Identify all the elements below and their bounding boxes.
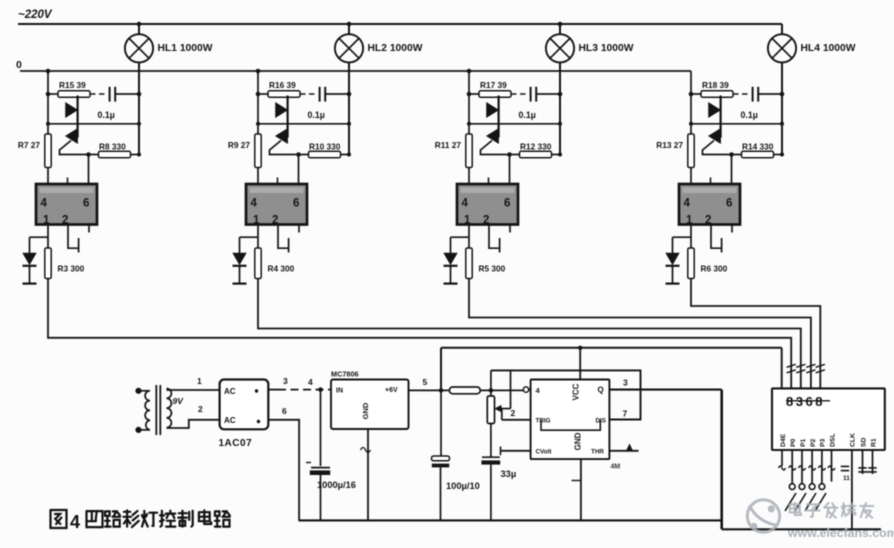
svg-text:1000µ/16: 1000µ/16 [317, 480, 356, 490]
svg-text:HL2 1000W: HL2 1000W [368, 43, 423, 54]
U6 bottom pin P2 with test point [809, 450, 816, 490]
svg-text:R11 27: R11 27 [435, 140, 462, 150]
resistor R5 [466, 248, 506, 279]
svg-text:R1: R1 [870, 438, 877, 447]
wire +6V riser [440, 348, 442, 391]
svg-text:1: 1 [197, 376, 202, 386]
capacitor C2 100u/10 [432, 390, 450, 520]
svg-text:6: 6 [293, 198, 299, 210]
svg-text:P3: P3 [820, 438, 827, 447]
svg-text:R14 330: R14 330 [742, 142, 774, 152]
wire to optocoupler pin6 [88, 155, 90, 185]
capacitor snubber 0.1u [256, 87, 352, 102]
wire 555 THR pin 6 [609, 444, 638, 451]
IC U6 8368 lamp controller [772, 388, 885, 450]
transformer T core [156, 385, 160, 435]
wire bridge + output, pins 3 4 [268, 376, 331, 390]
wire bridge - output, pin 6 [268, 406, 299, 520]
svg-text:VCC: VCC [572, 383, 581, 400]
U6 pins SD R1 [858, 450, 876, 474]
svg-text:4: 4 [462, 198, 469, 210]
svg-text:0.1µ: 0.1µ [519, 110, 536, 120]
wire timing loop to DIS pin 7 [491, 370, 641, 419]
resistor R17 snubber [469, 80, 511, 97]
wire secondary top, pin 1 [167, 376, 220, 390]
caption figure 4 [51, 510, 230, 532]
resistor R9 [228, 134, 261, 168]
wire triac MT line [46, 122, 141, 126]
triac VS3 [481, 96, 520, 155]
svg-text:SD: SD [860, 437, 867, 447]
capacitor C3 33u [481, 457, 500, 519]
svg-text:+6V: +6V [385, 387, 398, 394]
U6 bottom pin P3 with test point [818, 450, 825, 490]
wire optocoupler pin stub right [88, 225, 90, 233]
resistor R18 snubber [691, 80, 733, 97]
svg-text:R7 27: R7 27 [18, 140, 41, 150]
svg-text:1: 1 [43, 215, 50, 227]
wire secondary bottom, pin 2 [167, 404, 220, 428]
wire optocoupler pin stub right [509, 225, 511, 233]
svg-text:2: 2 [511, 408, 516, 418]
svg-text:R18 39: R18 39 [702, 80, 729, 90]
svg-text:Q: Q [598, 386, 604, 395]
resistor R16 snubber [258, 80, 300, 97]
svg-text:11: 11 [843, 475, 850, 482]
svg-text:P1: P1 [800, 438, 807, 447]
wire VDD into U6 [781, 348, 783, 389]
regulator MC7806 [331, 380, 409, 430]
resistor R15 snubber [48, 80, 90, 97]
wire RP wiper to TRIG pin 2 [502, 408, 531, 420]
LED VD2 [233, 237, 259, 283]
resistor R6 [688, 248, 728, 279]
power rail ~220V [18, 9, 782, 24]
resistor R14 gate [729, 142, 784, 158]
wire optocoupler pin1 down [257, 225, 259, 248]
svg-text:3: 3 [623, 377, 628, 387]
svg-text:IN: IN [336, 388, 343, 395]
svg-text:0: 0 [16, 59, 22, 71]
potentiometer RP [487, 370, 510, 456]
svg-text:R13 27: R13 27 [656, 140, 683, 150]
svg-text:www.elecfans.com: www.elecfans.com [787, 526, 894, 540]
wire channel left vertical [467, 69, 472, 134]
svg-text:R12 330: R12 330 [520, 142, 552, 152]
svg-text:6: 6 [83, 198, 89, 210]
wire channel left vertical [690, 71, 692, 134]
LED VD3 [444, 237, 470, 283]
svg-text:DSL: DSL [829, 433, 836, 447]
wire to optocoupler pin6 [298, 155, 300, 185]
wire optocoupler pin stub right [298, 225, 300, 233]
wire optocoupler pin stub right [731, 225, 733, 233]
optocoupler U4 [679, 178, 740, 227]
svg-text:9V: 9V [173, 396, 185, 406]
transformer T secondary coil [167, 389, 172, 428]
svg-text:5: 5 [423, 377, 428, 387]
wire lamp vertical [138, 62, 140, 154]
resistor R13 [656, 134, 694, 168]
op-amp timer NE555 U5 [523, 380, 609, 460]
svg-text:HL1 1000W: HL1 1000W [158, 43, 213, 54]
svg-text:TRIG: TRIG [536, 417, 551, 424]
wire channel 1 output bus to controller [48, 279, 791, 389]
svg-text:R15 39: R15 39 [59, 80, 86, 90]
svg-text:0.1µ: 0.1µ [741, 110, 758, 120]
labels U6 pin names [780, 433, 878, 447]
watermark text dianzifashaoyou [790, 503, 874, 518]
wire to optocoupler pin4 [468, 168, 470, 185]
neutral rail 0 [16, 59, 691, 71]
capacitor on CLK [841, 466, 850, 482]
wire optocoupler pin2 stub [489, 225, 500, 253]
svg-text:R3 300: R3 300 [58, 264, 85, 274]
U6 bottom pin P0 with test point [789, 450, 796, 490]
svg-text:GND: GND [361, 402, 370, 419]
wire 555 VCC pin 8 [578, 346, 582, 380]
resistor R7 [18, 134, 51, 168]
svg-text:~220V: ~220V [18, 9, 53, 21]
wire +6V output, pin 5 [409, 377, 450, 393]
resistor R1 timing [449, 387, 523, 394]
svg-text:1: 1 [686, 215, 693, 227]
resistor R4 [255, 248, 295, 279]
U6 bottom pin P1 with test point [799, 450, 806, 490]
svg-text:4: 4 [70, 512, 80, 532]
svg-text:R4 300: R4 300 [268, 264, 295, 274]
wire channel left vertical [256, 69, 261, 134]
wire to optocoupler pin4 [47, 168, 49, 185]
wire channel 4 output bus to controller [691, 279, 820, 389]
svg-text:HL4 1000W: HL4 1000W [801, 43, 856, 54]
svg-text:R10 330: R10 330 [309, 142, 341, 152]
wire triac MT line [256, 122, 351, 126]
triac VS1 [60, 96, 99, 155]
U6 bottom pin D4E [779, 450, 786, 470]
svg-text:CVolt: CVolt [536, 448, 553, 455]
svg-text:7: 7 [623, 409, 628, 419]
optocoupler U3 [457, 178, 518, 227]
svg-text:4: 4 [308, 377, 313, 387]
svg-text:GND: GND [574, 432, 583, 450]
wire channel 3 output bus to controller [469, 279, 811, 389]
svg-text:R17 39: R17 39 [480, 80, 507, 90]
svg-text:100µ/10: 100µ/10 [446, 481, 480, 491]
U6 bottom pin DSL [828, 450, 835, 482]
resistor ticks on U6 inputs [787, 364, 825, 373]
lamp HL4 [768, 24, 796, 62]
wire lamp vertical [781, 62, 783, 154]
wire optocoupler pin2 stub [278, 225, 289, 253]
svg-text:6: 6 [726, 198, 732, 210]
wire to optocoupler pin6 [731, 155, 733, 185]
capacitor C1 1000u/16 [306, 387, 330, 520]
wire triac MT line [467, 122, 562, 126]
wire CLK pin down to clock line [851, 450, 853, 529]
svg-text:1: 1 [253, 215, 260, 227]
resistor R10 gate [296, 142, 351, 158]
transformer T primary terminals [135, 388, 150, 433]
svg-text:R8 330: R8 330 [99, 142, 126, 152]
resistor R8 gate [86, 142, 141, 158]
svg-text:3: 3 [283, 376, 288, 386]
watermark logo circle [747, 500, 779, 532]
triac VS2 [270, 96, 309, 155]
wire optocoupler pin1 down [47, 225, 49, 248]
svg-text:4: 4 [41, 198, 48, 210]
svg-text:0.1µ: 0.1µ [98, 110, 115, 120]
wire optocoupler pin2 stub [68, 225, 79, 253]
wire channel left vertical [46, 69, 51, 134]
wire channel 2 output bus to controller [258, 279, 801, 389]
svg-text:R5 300: R5 300 [479, 264, 506, 274]
svg-text:0.1µ: 0.1µ [308, 110, 325, 120]
hatch marks under test points [785, 493, 826, 511]
wire optocoupler pin2 stub [711, 225, 722, 253]
capacitor snubber 0.1u [467, 87, 563, 102]
wire lamp vertical [559, 62, 561, 154]
svg-text:R6 300: R6 300 [701, 264, 728, 274]
svg-text:MC7806: MC7806 [331, 370, 359, 379]
wire 555 CVolt pin 5 [501, 447, 531, 456]
svg-text:6: 6 [504, 198, 510, 210]
wire lamp vertical [348, 62, 350, 154]
wire regulator GND lead [361, 429, 371, 520]
lamp HL1 [125, 22, 153, 63]
svg-text:6: 6 [282, 406, 287, 416]
svg-text:HL3 1000W: HL3 1000W [579, 43, 634, 54]
rail +6V [441, 347, 782, 349]
triac VS4 [703, 96, 742, 155]
LED VD4 [666, 237, 692, 283]
svg-text:2: 2 [198, 404, 203, 414]
wire to optocoupler pin4 [257, 168, 259, 185]
svg-text:P2: P2 [810, 438, 817, 447]
svg-text:CLK: CLK [850, 433, 857, 447]
lamp HL2 [335, 22, 363, 63]
svg-text:R9 27: R9 27 [228, 140, 251, 150]
svg-text:4M: 4M [611, 464, 621, 471]
wire 555 output pin 3 to CLK [609, 377, 881, 529]
svg-text:R16 39: R16 39 [269, 80, 296, 90]
wire 555 internal TRIG-DIS [541, 420, 600, 430]
svg-text:AC: AC [224, 416, 236, 425]
svg-text:THR: THR [591, 448, 604, 455]
capacitor snubber 0.1u [46, 87, 142, 102]
lamp HL3 [546, 22, 574, 63]
wire triac MT line [689, 122, 784, 126]
transformer T primary coil [145, 391, 150, 430]
svg-text:33µ: 33µ [501, 469, 517, 479]
LED VD1 [23, 237, 49, 283]
svg-text:P0: P0 [790, 438, 797, 447]
optocoupler U2 [246, 178, 307, 227]
svg-text:D4E: D4E [780, 433, 787, 447]
svg-text:4: 4 [684, 198, 691, 210]
svg-text:AC: AC [224, 387, 236, 396]
wire to optocoupler pin6 [509, 155, 511, 185]
wire optocoupler pin1 down [468, 225, 470, 248]
resistor R3 [45, 248, 85, 279]
bridge rectifier 1AC07 [220, 380, 269, 430]
ground bus [299, 519, 722, 521]
optocoupler U1 [36, 178, 97, 227]
resistor R11 [435, 134, 472, 168]
wire to optocoupler pin4 [690, 168, 692, 185]
svg-text:8368: 8368 [786, 394, 825, 409]
svg-text:4: 4 [251, 198, 258, 210]
svg-text:1AC07: 1AC07 [219, 438, 253, 449]
capacitor snubber 0.1u [689, 87, 785, 102]
wire optocoupler pin1 down [690, 225, 692, 248]
svg-text:1: 1 [464, 215, 471, 227]
resistor R12 gate [507, 142, 562, 158]
wire 555 GND pin 1 [572, 459, 581, 519]
